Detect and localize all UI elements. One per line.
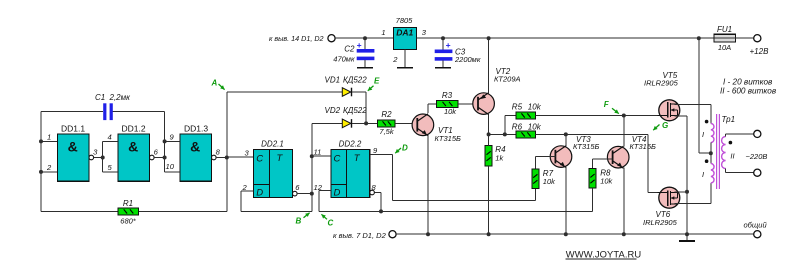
resistor R3 10k	[436, 100, 458, 107]
svg-text:КТ209А: КТ209А	[494, 74, 521, 83]
wire VT6 drain to transformer	[675, 203, 711, 205]
svg-text:КТ315Б: КТ315Б	[435, 134, 462, 143]
wire oscillator top rail	[41, 111, 103, 113]
wire VT4 base to R8	[593, 158, 613, 160]
wire branch to R5	[504, 116, 506, 135]
transistor VT3 КТ315Б	[550, 146, 572, 168]
svg-text:470мк: 470мк	[333, 55, 355, 64]
wire VT1 emitter to ground	[427, 135, 429, 234]
wire oscillator bottom (R1)	[41, 210, 118, 212]
svg-text:IRLR2905: IRLR2905	[644, 78, 679, 87]
wire VT4 collector to F	[623, 116, 625, 147]
wire DD2.2 feedback and to R8	[319, 210, 592, 212]
svg-text:WWW.JOYTA.RU: WWW.JOYTA.RU	[566, 249, 642, 260]
resistor R2 7,5k	[378, 120, 396, 127]
wire VT1 collector to R3	[427, 104, 429, 113]
ground MOSFET sources	[685, 232, 689, 236]
svg-text:IRLR2905: IRLR2905	[643, 218, 678, 227]
wire feedback vertical right	[226, 92, 228, 211]
svg-text:к выв. 14 D1, D2: к выв. 14 D1, D2	[269, 34, 324, 43]
wire center tap from +12V	[698, 38, 700, 153]
svg-text:R1: R1	[123, 199, 133, 208]
wire R3 to VT2 base	[458, 103, 478, 105]
wire VD2 cathode to R2	[352, 122, 378, 124]
svg-text:DA1: DA1	[396, 27, 413, 37]
terminal ~220В upper	[754, 130, 761, 137]
terminal ~220В lower	[754, 169, 761, 176]
transformer core	[716, 114, 718, 189]
wire DD2.1 feedback bottom	[241, 210, 312, 212]
wire VT2 collector line	[489, 133, 516, 135]
svg-text:DD2.2: DD2.2	[339, 140, 362, 149]
svg-text:10: 10	[166, 162, 175, 171]
svg-text:DD2.1: DD2.1	[261, 140, 284, 149]
svg-text:10k: 10k	[600, 176, 613, 185]
svg-text:VD2: VD2	[325, 106, 341, 115]
svg-text:&: &	[68, 139, 78, 155]
svg-text:Тр1: Тр1	[722, 115, 736, 124]
wire VT3 emitter to ground	[565, 167, 567, 234]
svg-text:~220В: ~220В	[746, 152, 768, 161]
svg-text:10A: 10A	[718, 43, 731, 52]
wire secondary to terminals	[725, 134, 727, 137]
svg-text:II - 600 витков: II - 600 витков	[720, 87, 777, 96]
svg-text:КТ315Б: КТ315Б	[630, 142, 657, 151]
wire A to VD1 anode	[227, 91, 342, 93]
wire R8 bottom to DD2.2 pin8 line	[592, 188, 594, 212]
svg-text:VD1: VD1	[325, 76, 341, 85]
transformer Tp1 secondary winding II	[722, 137, 726, 169]
svg-text:B: B	[296, 217, 302, 226]
wire DD1.2 output to DD1.3 inputs and C1	[154, 157, 165, 159]
svg-text:R3: R3	[442, 91, 453, 100]
transistor VT1 КТ315Б	[412, 114, 434, 136]
wire DD1.3 out to DD2.1 pin 3	[227, 156, 254, 158]
wire R2 to VT1 base	[395, 122, 417, 124]
wire pin9 to R7	[392, 200, 535, 202]
svg-text:1: 1	[47, 133, 51, 142]
node F	[622, 114, 626, 118]
svg-text:7805: 7805	[396, 16, 414, 25]
wire +12V rail right of DA1	[416, 37, 714, 39]
resistor R1 680*	[118, 208, 139, 215]
wire VT6 source to ground line	[675, 191, 687, 193]
svg-text:10k: 10k	[543, 177, 556, 186]
transformer Tp1 primary winding I bottom	[711, 164, 714, 184]
terminal +12В	[754, 35, 761, 42]
svg-text:C: C	[334, 154, 341, 165]
wire VT2 collector down	[488, 115, 490, 135]
svg-text:DD1.2: DD1.2	[121, 124, 145, 134]
svg-text:R6: R6	[512, 123, 523, 132]
svg-text:10k: 10k	[528, 123, 542, 132]
wire VT5 drain to transformer	[675, 103, 711, 105]
svg-text:КТ315Б: КТ315Б	[573, 142, 600, 151]
svg-text:10k: 10k	[528, 102, 542, 111]
svg-text:4: 4	[108, 133, 112, 142]
svg-text:11: 11	[314, 148, 322, 157]
wire R4 to ground	[488, 134, 490, 145]
wire VD1 cathode to node E	[352, 91, 366, 93]
svg-text:D: D	[256, 188, 263, 199]
svg-text:R2: R2	[381, 110, 392, 119]
svg-text:A: A	[211, 79, 218, 88]
ground C2	[364, 60, 366, 67]
transistor VT2 КТ209А	[473, 93, 495, 115]
svg-text:к выв. 7 D1, D2: к выв. 7 D1, D2	[333, 231, 387, 240]
flip-flop DD2.2	[331, 150, 370, 198]
svg-text:D: D	[334, 188, 341, 199]
svg-text:2: 2	[392, 55, 398, 64]
ground C3	[442, 61, 444, 68]
svg-text:2200мк: 2200мк	[454, 55, 481, 64]
svg-text:II: II	[730, 152, 734, 161]
wire DD1.1 input pins	[41, 140, 58, 142]
svg-text:C2: C2	[344, 45, 355, 54]
svg-text:C1: C1	[95, 93, 105, 102]
svg-text:2: 2	[46, 163, 52, 172]
svg-text:E: E	[374, 77, 380, 86]
svg-text:2,2мк: 2,2мк	[109, 93, 132, 102]
svg-text:R5: R5	[512, 102, 523, 111]
svg-text:+: +	[446, 40, 451, 50]
wire R6 to VT3 collector and VT6 gate	[535, 133, 648, 135]
wire oscillator left vertical	[40, 112, 42, 212]
svg-text:I - 20 витков: I - 20 витков	[723, 78, 773, 87]
svg-text:КД522: КД522	[343, 106, 367, 115]
resistor R6 10k	[516, 131, 535, 138]
ground DA1 pin 2	[404, 50, 406, 68]
svg-text:2: 2	[242, 183, 248, 192]
svg-text:680*: 680*	[120, 217, 137, 226]
wire VT4 emitter to ground	[623, 168, 625, 235]
wire VT3 base to R7	[535, 156, 555, 158]
diode VD1 КД522	[342, 88, 351, 97]
resistor R5 10k	[516, 112, 535, 119]
wire DD2.1 Q-bar vertical (node B)	[311, 123, 313, 211]
svg-text:FU1: FU1	[717, 25, 732, 34]
svg-text:C: C	[256, 154, 263, 165]
wire G vertical to VT6 gate	[647, 134, 649, 192]
wire DD2.1 out to DD2.2 pin 11	[312, 155, 331, 157]
transformer center tap	[710, 143, 712, 164]
svg-text:I: I	[702, 130, 704, 139]
resistor R8 10k	[589, 169, 596, 188]
svg-text:1k: 1k	[495, 154, 504, 163]
svg-text:+12В: +12В	[750, 47, 770, 56]
svg-text:10k: 10k	[444, 107, 457, 116]
svg-text:1: 1	[381, 28, 385, 37]
svg-text:КД522: КД522	[343, 76, 367, 85]
capacitor C1	[103, 103, 106, 120]
svg-text:&: &	[128, 139, 138, 155]
svg-text:I: I	[702, 170, 704, 179]
wire FU1 to +12V terminal	[735, 37, 753, 39]
wire +12V rail left	[335, 37, 393, 39]
wire VT3 collector	[565, 134, 567, 145]
wire DD2.1 to VD2 anode	[312, 122, 343, 124]
svg-text:&: &	[190, 139, 200, 155]
wire VT2 emitter to +12V	[488, 38, 490, 93]
transistor VT6 IRLR2905	[659, 187, 680, 208]
capacitor C2 470мк	[364, 38, 366, 49]
wire DD1.3 output node	[216, 157, 227, 159]
wire VT5 source down	[675, 115, 687, 117]
svg-text:C: C	[328, 219, 334, 228]
svg-text:G: G	[662, 121, 668, 130]
transistor VT5 IRLR2905	[659, 100, 680, 121]
flip-flop DD2.1	[254, 150, 293, 198]
svg-text:+: +	[357, 40, 362, 50]
resistor R4 1k	[485, 146, 492, 167]
wire ground rail	[396, 233, 753, 235]
NAND gate DD1.1	[58, 134, 90, 181]
node DD1.1 input junctions	[39, 139, 43, 143]
wire DD1.1 output to DD1.2 inputs	[93, 157, 102, 159]
transformer Tp1 primary winding I top	[711, 124, 714, 143]
wire R5 to F and VT5 gate	[535, 115, 657, 117]
svg-text:DD1.3: DD1.3	[184, 124, 208, 134]
svg-text:общий: общий	[744, 221, 768, 230]
svg-text:7,5k: 7,5k	[379, 127, 394, 136]
resistor R7 10k	[532, 169, 539, 189]
transistor VT4 КТ315Б	[607, 146, 629, 168]
NAND gate DD1.3	[180, 134, 212, 181]
NAND gate DD1.2	[118, 134, 150, 181]
capacitor C3 2200мк	[442, 38, 444, 49]
svg-text:D: D	[402, 144, 408, 153]
svg-text:DD1.1: DD1.1	[61, 124, 85, 134]
